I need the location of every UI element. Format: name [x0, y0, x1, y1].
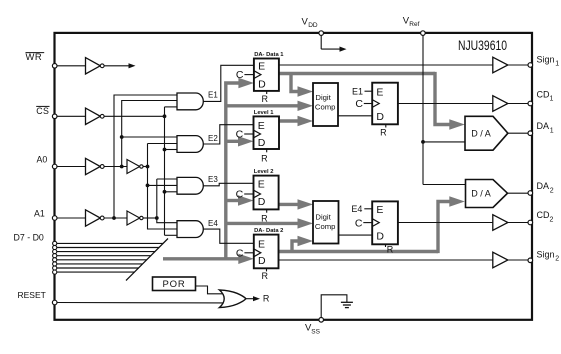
svg-text:D: D: [258, 137, 266, 149]
svg-text:DA- Data 2: DA- Data 2: [254, 228, 283, 234]
wire buffer to CD2 pin: [508, 222, 529, 224]
block POR: [153, 277, 196, 291]
ground symbol: [341, 301, 353, 303]
inverter WR: [86, 58, 101, 74]
svg-text:DA- Data 1: DA- Data 1: [254, 52, 284, 58]
pin DA1 terminal: [528, 131, 533, 136]
wire CD1 from E1 latch: [398, 103, 493, 105]
svg-text:E: E: [376, 87, 383, 99]
wire E1 to DA-Data1 E: [203, 65, 254, 101]
inverter A1 first: [86, 210, 101, 226]
svg-text:R: R: [387, 244, 394, 254]
wire buffer to CD1 pin: [508, 103, 529, 105]
svg-text:E: E: [258, 120, 265, 132]
pin CD2 terminal: [528, 220, 533, 225]
wire E2 to Level1 E: [203, 125, 253, 144]
svg-text:Ref: Ref: [409, 21, 419, 28]
wire POR output to OR gate: [196, 286, 227, 294]
svg-text:Comp: Comp: [315, 103, 336, 112]
inverter A0 first: [86, 158, 101, 174]
inverter CS: [86, 108, 101, 124]
svg-text:D: D: [376, 111, 384, 123]
svg-text:2: 2: [555, 256, 559, 263]
inverter A0 second: [127, 160, 140, 174]
svg-text:A1: A1: [34, 208, 45, 218]
wire Digit Comp 2 output to E4 latch D: [339, 234, 373, 236]
register Level2: [254, 176, 279, 210]
register DA-Data1: [254, 59, 279, 91]
svg-text:E1: E1: [352, 86, 363, 96]
bus slash diagonal: [126, 239, 168, 281]
power pin VSS terminal: [319, 318, 324, 323]
DA-Data1 register output bus to D/A 1 and Digit Comp 1: [279, 72, 435, 75]
node CS-bar joins V3: [163, 114, 167, 118]
wire VRef to D/A 2: [423, 184, 466, 186]
svg-text:1: 1: [555, 61, 559, 68]
wire Sign2 from DA-Data2: [279, 259, 493, 261]
svg-text:NJU39610: NJU39610: [458, 37, 507, 53]
wire WR to inverter: [57, 65, 86, 67]
svg-text:Level 2: Level 2: [254, 169, 274, 175]
wire RESET to OR gate: [57, 302, 226, 304]
svg-text:E: E: [258, 179, 265, 191]
node V2 to AND2: [120, 135, 124, 139]
wire Digit Comp 1 output to E1 latch D: [338, 115, 372, 117]
wire V3 stub AND4 input: [165, 234, 179, 236]
Level2 register output bus to Digit Comp 2: [279, 203, 299, 206]
node V3 to AND3: [163, 190, 167, 194]
svg-text:E4: E4: [351, 204, 362, 214]
svg-text:C: C: [236, 189, 244, 201]
block D/A 1: [465, 116, 508, 150]
wire CS-bar to decode trunk: [104, 115, 164, 117]
svg-text:R: R: [261, 94, 268, 104]
wire V4 stub AND3 input: [148, 184, 179, 186]
latch E1 (CD1 flag): [372, 83, 398, 125]
reset stub R of DA-Data2: [266, 268, 268, 271]
wire V3 stub AND2 input: [165, 149, 179, 151]
svg-text:1: 1: [550, 127, 554, 134]
pin D7-D0 terminals: [53, 241, 57, 245]
pin Sign1 terminal: [528, 63, 533, 68]
svg-text:E: E: [376, 204, 383, 216]
wire V3 stub AND3 input: [165, 191, 179, 193]
svg-text:Digit: Digit: [315, 93, 331, 102]
wire A1 buffered: [143, 217, 157, 219]
wire A0 to inverter: [57, 166, 86, 168]
svg-text:Comp: Comp: [315, 222, 336, 231]
svg-text:C: C: [355, 98, 363, 110]
svg-text:A0: A0: [37, 154, 48, 164]
pin Sign2 terminal: [528, 258, 533, 263]
svg-text:POR: POR: [163, 279, 186, 290]
AND gate E4: [177, 221, 203, 238]
wire buffer to Sign2 pin: [508, 259, 529, 261]
svg-text:DA: DA: [537, 181, 550, 191]
svg-text:R: R: [263, 294, 270, 304]
reset stub R of Level1: [266, 149, 268, 152]
node V3 to AND2: [163, 148, 167, 152]
wire decode vertical V1 (A1-bar to AND1): [114, 95, 178, 218]
wire E4 to DA-Data2 E: [203, 229, 254, 243]
block D/A 2: [466, 180, 508, 208]
svg-text:Sign: Sign: [537, 54, 555, 64]
node VRef to DA1: [421, 140, 425, 144]
svg-text:Sign: Sign: [537, 249, 555, 259]
AND gate E1: [177, 93, 203, 110]
wire A0-bar: [104, 166, 127, 168]
svg-text:E4: E4: [208, 219, 218, 228]
svg-text:CD: CD: [537, 89, 550, 99]
Level1 register output bus to Digit Comp 1: [279, 119, 299, 122]
svg-text:E: E: [258, 239, 265, 251]
svg-text:DA: DA: [537, 121, 550, 131]
wire Sign1 from DA-Data1: [279, 64, 493, 66]
pin DA2 terminal: [528, 191, 533, 196]
wire D/A2 to DA2 pin: [508, 192, 530, 194]
svg-text:RESET: RESET: [18, 290, 46, 300]
pin CS terminal: [52, 114, 57, 119]
wire decode vertical V4 (A0 to AND2/AND3/AND4): [148, 144, 179, 230]
wire VDD stub with arrow: [320, 35, 322, 49]
wire A0 buffered: [143, 166, 147, 168]
node A0-bar junction: [120, 165, 124, 169]
AND gate E3: [177, 177, 203, 194]
wire VSS to ground: [321, 295, 347, 318]
wire VRef to D/A 1: [423, 141, 465, 143]
wire CS to inverter: [57, 115, 86, 117]
wire A1 to inverter: [57, 217, 86, 219]
node V4 to AND3: [146, 184, 150, 188]
svg-text:Level 1: Level 1: [254, 110, 274, 116]
svg-text:D: D: [258, 196, 266, 208]
pin A1 terminal: [52, 216, 57, 221]
block Digit Comp 2: [313, 201, 339, 244]
svg-text:1: 1: [550, 96, 554, 103]
svg-text:C: C: [236, 129, 244, 141]
register DA-Data2: [254, 235, 279, 269]
svg-text:DD: DD: [308, 22, 318, 29]
svg-text:CD: CD: [537, 210, 550, 220]
svg-text:2: 2: [550, 216, 554, 223]
buffer CD1: [493, 96, 508, 112]
register Level1: [254, 116, 280, 149]
svg-text:D / A: D / A: [471, 128, 491, 138]
wire D/A1 to DA1 pin: [508, 132, 529, 134]
svg-text:E2: E2: [208, 134, 218, 143]
reset stub R of E1 latch: [385, 124, 387, 127]
wire decode vertical V5 (A1 to AND3/AND4): [157, 179, 178, 223]
wire D7-D0 bus lines: [57, 242, 164, 244]
reset stub R of E4 latch: [385, 244, 387, 247]
svg-text:D / A: D / A: [471, 188, 491, 198]
svg-text:E3: E3: [208, 175, 218, 184]
pin A0 terminal: [52, 164, 57, 169]
svg-text:D: D: [258, 255, 266, 267]
buffer CD2: [493, 215, 508, 231]
svg-text:C: C: [355, 217, 363, 229]
svg-text:D7 - D0: D7 - D0: [14, 233, 44, 243]
svg-text:2: 2: [550, 187, 554, 194]
svg-text:D: D: [258, 79, 266, 91]
AND gate E2: [177, 136, 203, 153]
inverter A1 second: [127, 211, 140, 225]
latch E4 (CD2 flag): [372, 201, 398, 244]
svg-text:C: C: [236, 247, 244, 259]
svg-text:R: R: [261, 153, 268, 163]
reference pin VRef terminal: [421, 31, 426, 36]
IC boundary box: [55, 33, 533, 320]
buffer Sign1: [493, 57, 508, 73]
wire OR output with arrow to R net: [246, 298, 254, 300]
wire CD2 from E4 latch: [398, 222, 493, 224]
wire E3 to Level2 E: [203, 183, 253, 186]
OR gate reset: [219, 290, 246, 308]
svg-text:R: R: [261, 271, 268, 281]
block Digit Comp 1: [313, 83, 338, 126]
DA-Data2 register output bus to D/A 2 and Digit Comp 2: [279, 250, 439, 253]
node A1-bar junction: [112, 216, 116, 220]
node A1 junction: [155, 216, 159, 220]
node A0 junction: [146, 165, 150, 169]
wire decode vertical V2 (A0-bar to AND1/AND2): [122, 101, 178, 167]
power pin VDD terminal: [319, 31, 324, 36]
wire decode vertical V3 (CS-bar to all ANDs): [164, 107, 166, 235]
buffer Sign2: [493, 252, 508, 268]
wire A1-bar: [104, 217, 127, 219]
wire WR inverter output with arrow: [104, 65, 129, 67]
svg-text:CS: CS: [36, 106, 49, 116]
svg-text:SS: SS: [311, 329, 320, 336]
svg-text:Digit: Digit: [315, 213, 331, 222]
wire VRef vertical: [422, 35, 424, 185]
wire V3 stub AND1 input: [165, 106, 179, 108]
internal data bus (thick gray) with register write arrows: [163, 257, 240, 260]
svg-text:E: E: [258, 61, 265, 73]
reset stub R of Level2: [266, 209, 268, 212]
reset stub R of DA-Data1: [266, 91, 268, 94]
pin CD1 terminal: [528, 101, 533, 106]
svg-text:E1: E1: [208, 91, 218, 100]
svg-text:R: R: [261, 213, 268, 223]
wire V2 stub AND2 input: [122, 136, 178, 138]
wire buffer to Sign1 pin: [508, 64, 529, 66]
svg-text:D: D: [376, 230, 384, 242]
pin RESET terminal: [52, 300, 57, 305]
svg-text:R: R: [380, 128, 387, 138]
svg-text:C: C: [236, 69, 244, 81]
pin WR terminal: [52, 64, 57, 69]
